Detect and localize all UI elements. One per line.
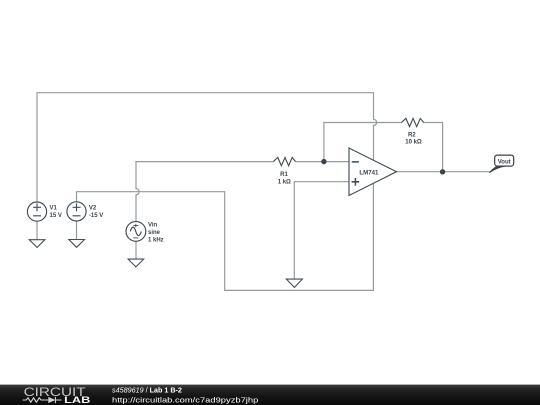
svg-text:R1: R1 [280, 172, 288, 178]
svg-text:1 kΩ: 1 kΩ [278, 179, 291, 185]
svg-text:http://circuitlab.com/c7ad9pyz: http://circuitlab.com/c7ad9pyzb7jhp [112, 395, 258, 404]
svg-text:-15 V: -15 V [89, 213, 103, 219]
voltage source V2 [67, 202, 86, 221]
svg-text:1 kHz: 1 kHz [148, 237, 164, 243]
label Vin sine 1 kHz [148, 223, 164, 244]
wire R1 to op-amp inverting input [296, 161, 349, 163]
wire V1- to ground [36, 221, 38, 239]
footer CircuitLab logo: resistor + diode squiggle [23, 397, 62, 403]
wire op-amp output to Vout flag [397, 171, 492, 173]
ground at op-amp non-inverting input [286, 279, 302, 287]
svg-text:s4589619 / Lab 1 B-2: s4589619 / Lab 1 B-2 [112, 385, 182, 394]
node: junction dot at inverting input [321, 159, 326, 164]
svg-text:LM741: LM741 [359, 169, 379, 176]
wire V2- to ground [76, 221, 78, 239]
wire feedback: inverting node up to R2 (hop over supply wire) [324, 123, 402, 162]
footer bar [0, 385, 540, 405]
svg-text:V1: V1 [50, 206, 58, 212]
svg-text:15 V: 15 V [50, 213, 62, 219]
svg-text:LAB: LAB [64, 395, 90, 405]
wire op-amp non-inverting input to ground [294, 182, 349, 279]
wire Vin+ to R1 (hop over V2 supply wire) [136, 162, 273, 222]
node: junction dot at output [440, 169, 445, 174]
label V2 -15 V [89, 206, 103, 219]
wire Vin- to ground [135, 241, 137, 259]
op-amp U1 LM741 [349, 148, 397, 196]
sine voltage source Vin [126, 222, 146, 242]
ground under V2 [69, 240, 85, 248]
svg-text:Vout: Vout [498, 159, 511, 165]
label R2 10 kOhm [405, 132, 422, 145]
node Vout flag [489, 155, 514, 173]
svg-text:10 kΩ: 10 kΩ [405, 139, 422, 145]
ground under Vin [128, 259, 144, 267]
voltage source V1 [27, 202, 46, 221]
label V1 15 V [50, 206, 62, 219]
ground under V1 [29, 240, 45, 248]
svg-text:R2: R2 [408, 132, 416, 138]
svg-text:V2: V2 [89, 206, 97, 212]
label R1 1 kOhm [278, 172, 291, 185]
wire V2+ to op-amp V- supply [77, 184, 374, 291]
svg-text:sine: sine [148, 230, 161, 236]
resistor R2 [401, 118, 423, 126]
wire V1+ to op-amp V+ supply (hop over R2 feedback wire) [37, 93, 377, 202]
svg-text:Vin: Vin [148, 223, 158, 229]
resistor R1 [273, 158, 295, 166]
wire R2 right to output node [424, 123, 443, 172]
